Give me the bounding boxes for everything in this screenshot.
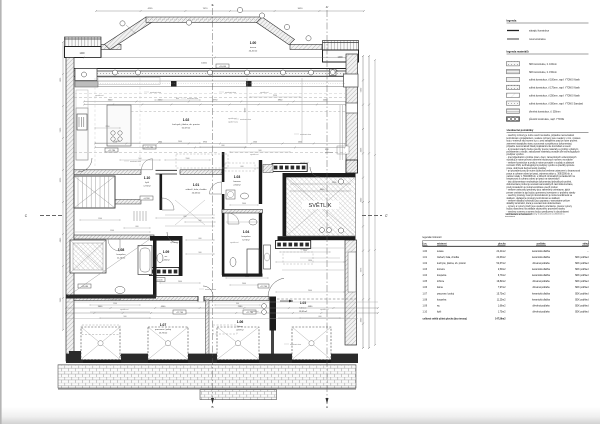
wardrobe 1.06 [213,325,237,334]
dashed ceiling line 2 [74,93,346,95]
inner sill line pair [98,80,346,82]
door arc 1.10 top [142,159,153,170]
svg-text:2550: 2550 [106,126,110,128]
dashed line mid [74,152,218,154]
chimney parapet top-right [323,41,359,51]
right zone counter 1.05 [348,252,356,292]
svg-text:vyustka vzt: vyustka vzt [260,91,269,94]
washbasin 1.08 [115,287,125,294]
svg-text:2600: 2600 [178,141,182,143]
wall horizontal y297 long [74,297,198,301]
svetlik dims [290,190,351,192]
bottom wall segment [121,354,148,363]
svg-text:vymery a vymery budou predloze: vymery a vymery budou predlozeny k odsou… [505,213,565,216]
svg-text:SDK podhled: SDK podhled [575,287,589,289]
fridge [77,114,87,130]
bottom dim chain 2 [66,312,378,314]
door arc 1.08 top [108,239,120,251]
svg-text:zděná konstrukce, tl 250mm, na: zděná konstrukce, tl 250mm, např. YTONG … [529,95,581,98]
door arc komora left [210,182,222,194]
svg-text:1.02: 1.02 [183,118,190,122]
svg-text:stěny: stěny [582,243,589,246]
glass block bar top right [272,164,307,172]
vertical dim line in 1.02 [246,78,248,143]
svg-text:vyustka vzt: vyustka vzt [320,308,329,311]
svg-text:1500: 1500 [113,303,117,305]
window mullion 2 [246,81,252,87]
svg-text:zděná konstrukce, tl 300mm, na: zděná konstrukce, tl 300mm, např. YTONG … [529,102,584,105]
svg-text:dřevěná podlaha: dřevěná podlaha [532,263,550,265]
svg-text:SDK podhled: SDK podhled [575,281,589,283]
diagonal leader 1.08 [68,239,150,296]
svetlik top wall [283,173,356,177]
hall ceiling X mark [175,200,205,225]
wall dotted band above 1.08 [74,235,154,239]
kitchen counter top-left grey [75,81,98,87]
svg-text:zamereni stavajiciho stavu a p: zamereni stavajiciho stavu a porovnat s … [507,142,573,145]
B arrowhead [211,398,214,404]
svg-text:1890: 1890 [158,142,162,144]
svg-text:24,41m2: 24,41m2 [497,251,507,253]
svg-text:zděná konstrukce, tl 175mm, na: zděná konstrukce, tl 175mm, např. YTONG … [529,87,581,90]
svg-text:montazni otvor: montazni otvor [300,133,312,136]
svg-text:šatna: šatna [437,286,443,289]
door arc 1.06 [203,286,213,296]
svg-text:kuchyně, jídelna, ob. prostor: kuchyně, jídelna, ob. prostor [172,123,200,126]
left exterior wall lower part [66,298,74,362]
roof edge top dotted line [146,19,262,21]
svg-text:4255: 4255 [148,8,154,10]
svg-text:1,66m2: 1,66m2 [498,305,506,307]
svg-text:+13,080: +13,080 [81,286,89,288]
svg-text:SDK podhled: SDK podhled [575,293,589,295]
svg-text:budou stanoveny na zaklade sku: budou stanoveny na zaklade skutecneho pr… [507,208,566,211]
svg-text:1.04: 1.04 [243,230,250,234]
vertical dashed line kitchen [139,78,141,168]
svg-text:2600: 2600 [178,281,182,283]
svg-text:koty v metrech nad morem b.p.v: koty v metrech nad morem b.p.v. pred zah… [507,140,578,143]
svg-text:terasa: terasa [250,46,257,49]
svg-text:vyustka vzt: vyustka vzt [300,161,309,164]
lower stair flight [133,211,135,221]
svg-text:montazni otvor: montazni otvor [225,91,237,94]
svg-text:600: 600 [241,166,244,168]
svg-text:1.01: 1.01 [423,257,428,259]
svg-text:pracovna / pokoj: pracovna / pokoj [155,328,172,331]
svg-text:1.06: 1.06 [237,320,244,324]
svg-text:prace a ochrane zdravi pri pra: prace a ochrane zdravi pri praci, zejmen… [507,172,574,175]
svg-text:spodni hrana: spodni hrana [228,121,238,124]
roof window 3 [217,327,259,360]
svg-text:SDK podhled: SDK podhled [575,263,589,265]
svg-text:pred provadenim je nutna koord: pred provadenim je nutna koordinace vsec… [507,186,559,189]
roof window 1 [81,327,120,360]
svg-text:600: 600 [199,238,202,240]
wall vertical 1.08/1.09 [153,240,157,297]
bottom wall segment [331,354,358,363]
toilet 1.04 [230,258,236,267]
legend material row 7 [507,109,520,113]
svg-text:1.02: 1.02 [423,263,428,265]
svg-text:7,97m2: 7,97m2 [498,287,506,289]
svg-text:6,73m2: 6,73m2 [498,275,506,277]
svetlik label halo [302,201,339,210]
right margin dim line 3 [374,60,376,345]
entry arrow 1.05 [280,300,293,302]
bottom-left corner block [69,351,83,363]
svg-text:52,67m2: 52,67m2 [182,128,191,130]
secondary dim line [84,104,346,106]
svg-text:investorem: investorem [505,215,515,218]
extra bottom dim row [66,318,358,320]
svg-text:zádveří, hala, chodba: zádveří, hala, chodba [437,257,460,259]
level mark [143,145,156,149]
svg-text:prohlasenim o shode, zabudovan: prohlasenim o shode, zabudovani material… [507,151,581,154]
svg-text:2550: 2550 [273,95,277,97]
svg-text:terasa: terasa [437,250,444,253]
wall vertical between 1.10 and 1.01 [160,174,163,210]
toilet 1.09 [157,254,163,263]
hatch piece near glass bar [263,165,273,173]
dashed boundary 1.05 [277,298,356,300]
dim line above top wall [84,57,346,59]
svg-text:původní konstrukce, např. YTON: původní konstrukce, např. YTONG [529,118,564,121]
left margin dim line [62,42,64,330]
svg-text:dřevěná podlaha: dřevěná podlaha [532,312,550,314]
svg-text:vyustka vzt: vyustka vzt [170,241,179,244]
right wall dark lintel [346,160,358,173]
svg-text:1.01: 1.01 [193,183,200,187]
svg-text:1.08: 1.08 [423,299,428,301]
window tag squares [81,69,88,76]
wall black segment 1.09 top [150,236,179,241]
svg-text:11,25m2: 11,25m2 [117,258,126,260]
svg-text:2,50m2: 2,50m2 [498,269,506,271]
top exterior wall second line [66,70,346,72]
chimney block top-right [323,50,359,62]
svg-text:7470: 7470 [203,8,209,10]
level mark [140,196,153,200]
svg-text:konzultovat s projektantem. ve: konzultovat s projektantem. veskere rozm… [507,137,582,140]
top window strip [84,72,346,77]
bottom wall segment [259,354,292,363]
roof edge top run [146,17,262,22]
sdk predstena double line right [339,105,341,160]
dimension chain below top wall [84,101,346,103]
svg-text:keramická dlažba: keramická dlažba [532,250,551,253]
sink 1.03 [241,193,249,199]
svg-text:- tato dokumentace neobsahuje: - tato dokumentace neobsahuje dokumentac… [507,180,573,183]
axis A vertical [326,10,328,404]
svg-text:1.03: 1.03 [423,269,428,271]
svg-text:SVĚTLÍK: SVĚTLÍK [308,201,331,209]
legend line sample 1 [507,30,519,32]
svg-text:900: 900 [199,220,202,222]
legend material row 3 [507,77,520,81]
svg-text:vyustka vzt: vyustka vzt [95,94,104,97]
svg-text:1.07: 1.07 [423,293,428,295]
roof dimension line [96,10,364,12]
section C right [362,215,382,217]
svg-text:3620: 3620 [298,8,304,10]
svg-text:2550: 2550 [113,142,117,144]
svg-text:1.10: 1.10 [144,176,151,180]
svg-text:č.m.: č.m. [423,243,428,246]
right exterior wall upper [346,54,358,173]
bottom wall segment [66,354,80,363]
roof edge right slope [257,17,295,45]
svg-text:koupelna: koupelna [117,254,127,256]
svg-text:SDK konstrukce, tl. 150mm: SDK konstrukce, tl. 150mm [529,71,557,74]
svg-text:legenda materiálů: legenda materiálů [507,50,529,54]
chimney parapet top-left [65,37,102,47]
kitchen counter edge line [98,78,160,85]
svg-text:pracovna / pokoj: pracovna / pokoj [437,292,454,295]
level box 1.09 [154,278,165,282]
wardrobe 1.07 [82,325,120,335]
dim chain 1.02 row2 [95,147,345,149]
svg-text:legenda: legenda [507,19,517,23]
svg-text:narizeni vlady c. 591/2006 sb.: narizeni vlady c. 591/2006 sb. o blizsic… [507,175,576,178]
svg-text:keramická dlažba: keramická dlažba [532,298,551,301]
svg-text:statikem, dodatecne prostupy k: statikem, dodatecne prostupy konzultovat… [507,197,561,200]
svg-text:3950: 3950 [203,142,207,144]
dim chain 1.02 row1 [95,143,345,145]
svg-text:SDK podhled: SDK podhled [575,269,589,271]
svg-text:skladby konstrukci, ktera je s: skladby konstrukci, ktera je soucasti te… [507,202,562,205]
svg-text:600: 600 [184,216,187,218]
wall kitchen/stair horizontal [74,170,141,175]
svg-text:19,82m2: 19,82m2 [497,281,507,283]
svg-text:1.09: 1.09 [423,305,428,307]
svg-text:2600: 2600 [298,142,302,144]
top exterior wall upper line [66,68,346,70]
roof edge left stub [101,44,121,49]
svg-text:2600: 2600 [242,283,246,285]
door arc 1.10 right [162,198,174,210]
legend material row 6 [507,101,520,105]
wall vertical between 1.06 and 1.05 black [270,297,277,331]
tub 1.04 [247,249,259,274]
basin counter 1.04 right [264,245,271,269]
svg-text:komora: komora [233,180,241,183]
svg-text:11,25m2: 11,25m2 [497,299,506,301]
svetlik left wall [283,173,287,236]
door arc 1.02-hall [78,158,92,172]
svg-text:vyustka vzt: vyustka vzt [250,310,259,313]
svg-text:1,70m2: 1,70m2 [143,186,151,188]
svg-text:dřevěná podlaha: dřevěná podlaha [532,287,550,289]
legend material row 8 [507,117,520,121]
shelf dashes 1.03 [225,163,255,171]
svg-text:- vsechny rozmery je nutno ove: - vsechny rozmery je nutno overit na sta… [507,134,575,137]
svg-text:keramická dlažba: keramická dlažba [532,274,551,277]
svg-text:7,97m2: 7,97m2 [236,330,244,332]
bottom wall segment [188,354,217,363]
svg-text:1500: 1500 [98,218,102,220]
svg-text:1340: 1340 [253,142,257,144]
svg-text:montazni otvor: montazni otvor [130,160,142,163]
svg-text:- veskere skladby konstrukci j: - veskere skladby konstrukci jsou popsan… [507,200,571,203]
svg-text:vyustka vzt: vyustka vzt [120,308,129,311]
svetlik light well area [286,177,356,236]
svg-text:montazni otvor: montazni otvor [110,298,122,301]
svg-text:+0,100: +0,100 [157,280,163,282]
roof edge left slope [105,17,152,50]
level box kitchen2 [105,148,118,152]
dashed storage 1.02 [176,154,228,168]
roof window 4 [292,327,331,360]
vertical dim line in 1.02 b [301,78,303,143]
A arrowhead [326,398,329,404]
svg-text:24,41m2: 24,41m2 [249,51,258,53]
bottom exterior wall sill bar [66,360,358,363]
dotted sill line below top wall [98,83,346,85]
svg-text:- veskere konstrukce a prvky j: - veskere konstrukce a prvky je nutne pr… [507,161,575,164]
stacked tag circles right of 1.06 wall [262,304,267,309]
svg-text:1400: 1400 [79,53,85,55]
axis b vertical [212,8,214,404]
lintel 1.10 top double line [156,169,178,171]
svg-text:vyustka vzt: vyustka vzt [300,248,309,251]
svg-text:montazni otvor: montazni otvor [205,288,217,291]
cooktop circles [111,131,115,135]
bathtub 1.08 [138,246,152,275]
svg-text:komora: komora [437,268,445,271]
door frame ticks y297 [197,296,199,302]
legend material row 5 [507,93,520,97]
dashed rect 1.05 [283,252,313,264]
svg-text:SDK podhled: SDK podhled [575,305,589,307]
svg-text:SDK konstrukce, tl. 100mm: SDK konstrukce, tl. 100mm [529,63,557,66]
svetlik tag circles [338,179,343,184]
svg-text:1.05: 1.05 [300,301,306,305]
roof edge right stub [290,44,322,49]
svg-text:1.08: 1.08 [118,248,125,252]
door arc svetlik [310,167,320,177]
basin 1.04b [249,219,257,225]
svg-text:SDK podhled: SDK podhled [575,257,589,259]
svg-text:A: A [326,405,328,409]
kitchen island [107,105,131,146]
wall vertical 1.09 right [179,236,183,276]
legend material row 1 [507,62,520,66]
roof tag circles [120,21,125,26]
shower 1.08 [70,240,106,273]
svg-text:A': A' [326,5,329,9]
svg-text:+10,040: +10,040 [219,66,227,68]
level box corridor [258,284,269,288]
svg-text:1,75m2: 1,75m2 [498,312,506,314]
svg-text:kuchyně, jídelna, ob. prostor: kuchyně, jídelna, ob. prostor [437,262,466,265]
legend material row 4 [507,85,520,89]
svg-text:24,63m2: 24,63m2 [192,193,201,195]
wall vertical x221 komora/bath left [222,152,225,182]
svg-text:stávající konstrukce: stávající konstrukce [529,30,550,33]
door arc 1.04 top [228,213,239,224]
window mullion 1 [171,81,177,87]
wall vertical 1.04 right [259,213,262,275]
kitchen counter left wall long [76,90,88,160]
chimney block top-left [65,47,102,58]
wall horizontal top of 1.04 [222,210,263,214]
svg-text:praxe, dodrzovat bezpecnostni: praxe, dodrzovat bezpecnostni predpisy [507,167,548,170]
svg-text:6,73m2: 6,73m2 [242,240,250,242]
svg-text:ložnice: ložnice [437,281,445,283]
dashed line mid right [230,152,346,154]
level mark [243,310,256,314]
svg-text:1.00: 1.00 [423,251,428,253]
svg-text:zádveří, hala, chodba: zádveří, hala, chodba [186,189,208,191]
page left edge [0,0,2,424]
window box right wall [344,74,359,87]
door arc 1.05 [268,278,284,297]
svg-text:keramická dlažba: keramická dlažba [532,256,551,259]
svg-text:147,56m2: 147,56m2 [495,317,506,320]
svg-text:600: 600 [136,226,139,228]
svg-text:1500: 1500 [186,158,190,160]
svg-text:+12,760: +12,760 [176,312,184,314]
wall 1.08 bottom dark [66,295,156,299]
svg-text:1.05: 1.05 [423,281,428,283]
kitchen counter along left wall [76,108,88,160]
svg-text:koupelna: koupelna [242,236,252,238]
svg-text:všeobecné poznámky: všeobecné poznámky [507,128,534,132]
terrace band bottom heavy line [58,388,356,390]
svg-text:15,75m2: 15,75m2 [497,293,507,295]
svg-text:predpisu vyrobcu: predpisu vyrobcu [507,153,525,156]
level mark [173,310,186,314]
svg-text:900: 900 [259,150,262,152]
svg-text:1.06: 1.06 [423,287,428,289]
svg-text:normami CSN, technologickymi p: normami CSN, technologickymi predpisy vy… [507,164,576,167]
svg-text:C': C' [385,214,388,218]
bottom dim chain 1 [66,307,378,309]
svg-text:vyustka vzt: vyustka vzt [228,117,237,120]
svg-text:koupelna: koupelna [437,299,447,301]
svg-text:+12,780: +12,780 [108,150,116,152]
svg-text:1.00: 1.00 [250,41,257,45]
svg-text:2600: 2600 [308,290,312,292]
svg-text:14000: 14000 [201,63,208,65]
lower terrace paving band [58,365,356,388]
glass block bar bottom right [276,241,311,249]
svg-text:1.04: 1.04 [423,275,428,277]
svg-text:52,67m2: 52,67m2 [497,263,507,265]
svetlik diagonals [286,177,356,236]
right margin dim line 1 [362,56,364,348]
svg-text:1.07: 1.07 [160,323,167,327]
svg-text:1,66m2: 1,66m2 [162,260,170,262]
washer 1.03 [226,190,235,199]
svg-text:24,63m2: 24,63m2 [497,257,507,259]
svg-text:bezpecnost a ochranu zdravi pr: bezpecnost a ochranu zdravi pri praci na… [507,178,561,181]
glass block bar room 1.09 [150,268,180,276]
window tag circles [113,70,118,75]
svg-text:špíž: špíž [145,182,149,184]
svg-text:presne umisteni a typ budou up: presne umisteni a typ budou upresneny in… [507,191,577,194]
svg-text:dřevěná podlaha: dřevěná podlaha [532,281,550,283]
svg-text:- vymery a vymery ploch jsou u: - vymery a vymery ploch jsou uvedeny ori… [507,205,573,208]
svg-text:keramická dlažba: keramická dlažba [532,292,551,295]
hall clutter [165,214,215,216]
svg-text:dřevěná podlaha: dřevěná podlaha [532,305,550,307]
window box right wall lower [346,103,358,113]
svg-text:SDK podhled: SDK podhled [575,275,589,277]
svg-text:keramická dlažba: keramická dlažba [532,268,551,271]
svg-text:vyustka vzt: vyustka vzt [230,241,239,244]
svg-text:B: B [211,405,213,409]
